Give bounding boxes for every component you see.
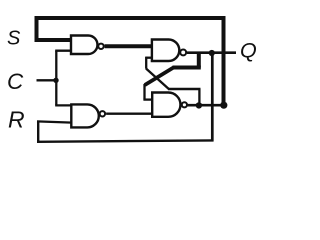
node junction dot Q' to feedback (big)	[220, 102, 227, 109]
node junction dot on Q' line	[196, 102, 202, 108]
wire: C input horizontal	[37, 79, 57, 81]
wire: S node horizontal into gate U1 (thick)	[35, 38, 72, 42]
wire: cross-coupling thin horizontal	[168, 88, 201, 90]
wire: cross-coupling thin diagonal from Q'	[146, 69, 169, 90]
wire: thin vertical down to Q' line	[198, 89, 200, 105]
wire: C lower branch into gate U2	[55, 104, 72, 106]
gate U4 (bottom-right NAND)	[152, 93, 180, 117]
gate U1 (top-left NAND)	[71, 36, 97, 55]
wire: cross-coupling thick diagonal to gate U4 input	[145, 68, 174, 86]
wire: gate U3 lower input stub	[146, 57, 152, 59]
wire: R input horizontal into gate U2	[37, 121, 72, 122]
wire: top feedback horizontal (thick, from Q' up and across)	[35, 16, 226, 20]
node C junction dot	[53, 78, 58, 83]
wire: R left vertical from bottom feedback	[37, 121, 39, 143]
svg-text:Q: Q	[240, 39, 257, 63]
wire: C vertical branch	[55, 51, 57, 106]
node junction dot on Q line	[209, 50, 215, 56]
wire: gate U1 output to gate U3 (thick)	[105, 44, 152, 48]
gate U2 (bottom-left NAND)	[71, 104, 99, 127]
wire: left feedback vertical down to S node (thick)	[35, 16, 39, 42]
wire: right feedback vertical (thick, crosses Q line)	[222, 16, 226, 105]
wire: Q output line	[187, 51, 236, 54]
svg-text:R: R	[8, 107, 25, 133]
wire: Q feedback vertical down (crosses Q' line, no dot)	[211, 53, 214, 142]
gate U3 (top-right NAND)	[152, 40, 179, 62]
wire: bottom feedback horizontal (from Q down-line)	[37, 140, 213, 141]
svg-text:C: C	[7, 69, 24, 94]
wire: gate U2 output to gate U4	[106, 112, 152, 114]
wire: cross-coupling thick horizontal	[173, 66, 201, 70]
wire: C upper branch into gate U1	[55, 50, 71, 52]
svg-text:S: S	[7, 28, 21, 50]
wire: stub down into gate U4 top input	[143, 84, 145, 100]
wire: cross-coupling Q down vertical (thick)	[197, 53, 201, 68]
wire: Q' output line to thick feedback junction	[188, 104, 225, 107]
